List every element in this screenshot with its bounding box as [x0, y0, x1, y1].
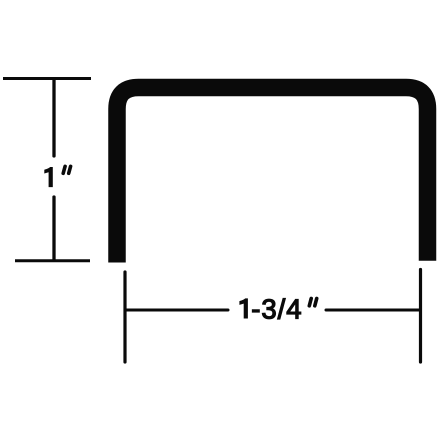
- label 1-3/4 (digit 1): [239, 298, 248, 318]
- channel profile (inverted-U cross section): [117, 88, 428, 263]
- dimension line horizontal right segment (1-3/4 inch): [326, 309, 420, 312]
- label double prime (1 inch): [63, 166, 70, 173]
- label -3/4 (fraction): [251, 293, 302, 324]
- dimension line vertical lower segment (1 inch): [52, 197, 55, 260]
- label double prime (1-3/4 inch): [309, 299, 316, 306]
- dimension line horizontal left segment (1-3/4 inch): [126, 309, 229, 312]
- dimension extension tick bottom (1 inch): [15, 259, 90, 262]
- svg-text:-3/4: -3/4: [251, 293, 302, 324]
- dimension extension tick top (1 inch): [3, 77, 91, 80]
- dimension line vertical upper segment (1 inch): [52, 79, 55, 156]
- label 1 (digit of 1 inch): [44, 167, 53, 187]
- extension line left (1-3/4 inch): [123, 272, 126, 362]
- extension line right (1-3/4 inch): [419, 270, 422, 363]
